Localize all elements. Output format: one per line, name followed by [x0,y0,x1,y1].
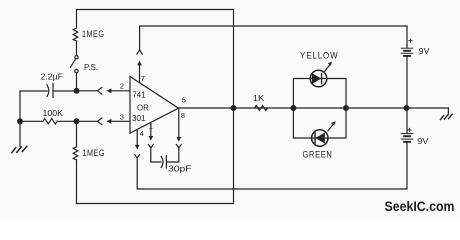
svg-text:741: 741 [132,89,146,99]
wire feedback vertical x=233.5 [233,10,235,204]
battery B1 bottom lead to node row [406,57,408,108]
LED D1 YELLOW [310,70,327,87]
wire left rail cap to 100K row [19,91,21,121]
arrow into pin 3 [111,120,130,122]
node A junction dot [74,88,79,93]
resistor R2 100K [20,120,43,122]
op-amp output wire [179,107,449,109]
open caret pin2 [98,88,102,95]
wire top feedback horizontal [77,9,234,11]
wire node A to pin2 open caret [77,90,98,92]
wire node C to pin3 open caret [77,120,98,122]
battery B2 9V plates [401,133,413,135]
svg-text:SeekIC.com: SeekIC.com [385,198,455,214]
node B junction dot [18,119,23,124]
ground left symbol [22,146,27,151]
battery B1 plus sign [409,39,412,42]
wire bottom feedback horizontal [77,203,234,205]
pin number 2 [120,82,124,91]
node D output junction dot [231,106,236,111]
svg-text:2.2µF: 2.2µF [41,72,64,82]
ground right stub [447,108,449,115]
svg-text:2: 2 [120,82,124,91]
arrow into pin 2 [111,90,130,92]
LED D2 GREEN [312,130,328,146]
wire switch to node A [76,73,78,91]
svg-text:6: 6 [182,95,186,104]
label 30pF [168,163,192,173]
battery B1 9V top lead [406,26,408,45]
capacitor C1 2.2uF left wire [20,90,47,92]
svg-text:9V: 9V [417,136,428,146]
battery B2 plus sign [408,128,411,131]
pin number 7 [141,74,145,83]
node C junction dot [74,119,79,124]
node F junction dot [344,106,349,111]
svg-text:30pF: 30pF [168,163,192,173]
open caret pin8 [176,144,181,148]
battery B1 9V plates [401,47,413,49]
svg-text:1MEG: 1MEG [82,29,105,39]
open caret pin1 [148,144,153,148]
resistor R3 1MEG (bottom) lead [76,121,78,147]
open caret pin7 [137,50,142,54]
pin 7 arrow up from op-amp [139,65,141,83]
svg-text:OR: OR [137,102,149,112]
svg-text:GREEN: GREEN [303,149,333,159]
label YELLOW [300,50,339,60]
label 1MEG (top) [82,29,105,39]
ground left stub [19,121,21,146]
label 100K [43,108,64,118]
pin number 4 [140,129,144,138]
wire pin8 caret to 30pF [167,148,179,162]
op-amp U1 triangle [130,77,179,134]
pin number 1 [149,122,153,131]
svg-text:1MEG: 1MEG [83,148,106,158]
svg-text:100K: 100K [43,108,64,118]
battery B2 9V lead from node row [406,108,408,133]
wire R3 to bottom feedback [76,160,78,204]
svg-text:3: 3 [120,112,124,121]
label 1K [253,93,265,103]
open caret pin3 [98,118,102,125]
wire left rail top to R1 [76,10,78,29]
label 741 OR 301 [132,89,149,123]
resistor R1 1MEG (top) [73,28,78,41]
wire green branch left vertical [293,108,311,138]
capacitor C1 right wire [54,90,77,92]
resistor R3 1MEG (bottom) [73,147,78,160]
open caret pin4 [135,155,140,159]
capacitor C2 30pF plates [165,156,167,169]
svg-text:4: 4 [140,129,144,138]
label 9V (top battery) [419,46,430,56]
wire yellow branch right vertical [327,79,346,109]
pin number 6 [182,95,186,104]
ground right symbol [449,114,452,118]
node G junction dot [404,106,409,111]
svg-text:8: 8 [181,111,185,120]
watermark SeekIC.com [385,198,455,214]
node E junction dot [291,106,296,111]
svg-text:1K: 1K [253,93,265,103]
pin 8 wire down from apex [178,108,180,137]
wire 30pF to pin1 caret [151,148,161,162]
svg-text:1: 1 [149,122,153,131]
label GREEN [303,149,333,159]
LED D2 emission arrow [328,125,333,131]
label 9V (bottom battery) [417,136,428,146]
pin 1 arrow down from op-amp [150,123,152,136]
svg-text:9V: 9V [419,46,430,56]
svg-text:P.S.: P.S. [84,62,98,72]
wire R1 to switch [76,41,78,55]
label P.S. [84,62,98,72]
wire green branch right vertical [328,108,346,138]
pin number 3 [120,112,124,121]
wire yellow branch left vertical [293,79,310,109]
resistor R4 1K [255,106,268,111]
label 1MEG (bottom) [83,148,106,158]
svg-text:7: 7 [141,74,145,83]
svg-text:YELLOW: YELLOW [300,50,339,60]
switch P.S. [75,56,78,59]
pin 4 arrow down from op-amp [136,130,138,145]
capacitor C1 2.2uF plates [47,85,49,97]
wire V- rail pin4 to battery B2 [137,142,407,189]
pin number 8 [181,111,185,120]
label 2.2uF [41,72,64,82]
svg-text:301: 301 [132,113,146,123]
wire V+ supply from caret up and right [140,26,407,50]
LED D1 emission arrow [325,65,330,71]
